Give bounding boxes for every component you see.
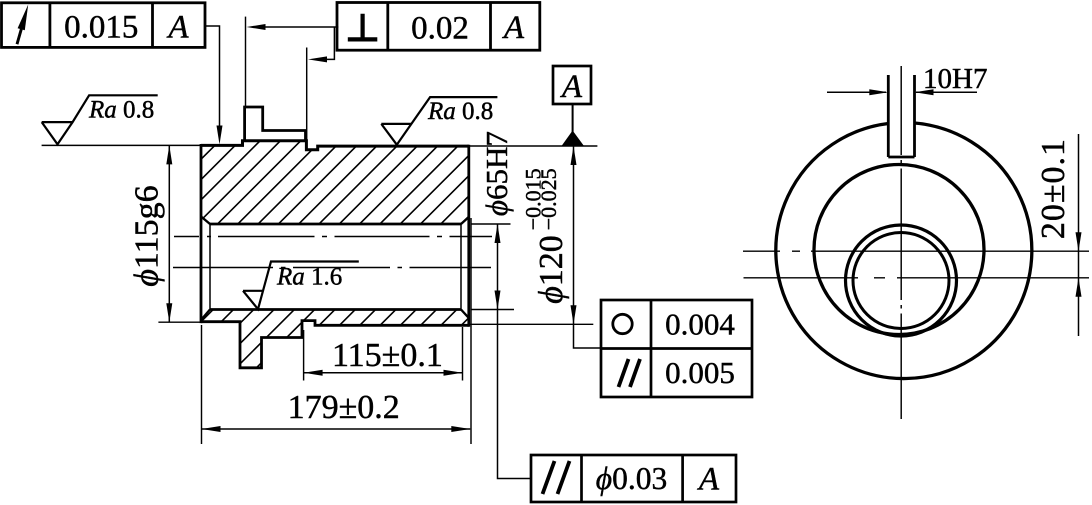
svg-text:0.004: 0.004 bbox=[665, 307, 735, 342]
runout symbol arrow bbox=[17, 19, 24, 44]
value 20±0.1 rotated bbox=[1035, 138, 1072, 239]
datum A flag box bbox=[553, 66, 591, 104]
svg-text:10H7: 10H7 bbox=[923, 63, 987, 95]
surface finish Ra 0.8 right bbox=[381, 97, 497, 145]
svg-text:0.005: 0.005 bbox=[665, 355, 735, 390]
bore chamfer edge lines bbox=[210, 224, 461, 310]
outer circle with keyway gap bbox=[776, 123, 1032, 379]
concentricity circle symbol bbox=[613, 314, 632, 333]
dimension phi120 tolerance (vertical at right of part) bbox=[574, 146, 602, 348]
label phi65H7 rotated bbox=[479, 131, 514, 216]
leader from F1 down to top surface bbox=[205, 26, 220, 128]
svg-text:ϕ115g6: ϕ115g6 bbox=[129, 185, 166, 286]
svg-text:0.015: 0.015 bbox=[64, 10, 138, 46]
dimension 115±0.1 bbox=[303, 330, 305, 381]
bore axis centerline bbox=[173, 267, 491, 269]
dimension 20±0.1 bbox=[1078, 134, 1080, 336]
svg-text:A: A bbox=[502, 10, 525, 46]
bore circle bbox=[853, 233, 949, 329]
extension of bottom surface for phi120 bbox=[469, 323, 594, 325]
hatching bottom band of section view bbox=[0, 110, 758, 390]
extension line at boss left face bbox=[245, 17, 247, 107]
phi120 tolerance stack rotated bbox=[521, 168, 546, 230]
bore top line bbox=[210, 223, 461, 226]
outer horizontal centerline bbox=[743, 250, 1089, 252]
vertical centerline bbox=[900, 66, 902, 419]
middle circle bbox=[814, 165, 984, 335]
label phi115g6 rotated bbox=[129, 185, 166, 286]
perpendicularity symbol bbox=[348, 14, 378, 40]
main body outline: bottom profile with lower boss bbox=[201, 321, 469, 368]
right end face bbox=[467, 145, 470, 327]
dimension 179±0.2 bbox=[201, 325, 203, 444]
svg-text:ϕ120: ϕ120 bbox=[533, 235, 570, 304]
concentricity + parallelism stacked frames bbox=[601, 300, 752, 397]
svg-text:Ra 0.8: Ra 0.8 bbox=[88, 97, 154, 124]
dimension 10H7 bbox=[827, 91, 977, 93]
bore chamfer diagonals bbox=[201, 217, 469, 321]
leader branch to second extension line bbox=[324, 27, 334, 59]
feature control frame F2 (perpendicularity 0.02 A) bbox=[337, 3, 540, 51]
leader from F2 to left extension line bbox=[263, 26, 338, 28]
datum stem and solid triangle bbox=[572, 104, 574, 132]
svg-text:115±0.1: 115±0.1 bbox=[332, 337, 443, 374]
svg-text:A: A bbox=[560, 69, 583, 105]
surface finish Ra 1.6 in bore bbox=[243, 262, 359, 310]
phi120 text rotated bbox=[533, 235, 570, 304]
svg-text:A: A bbox=[166, 10, 189, 46]
dimension phi115g6 (vertical at left) bbox=[42, 144, 201, 146]
svg-text:Ra 1.6: Ra 1.6 bbox=[276, 264, 342, 291]
parallelism symbol bottom frame bbox=[543, 461, 570, 494]
svg-text:ϕ0.03: ϕ0.03 bbox=[596, 461, 667, 496]
outer axis centerline bbox=[174, 236, 492, 238]
svg-text:179±0.2: 179±0.2 bbox=[288, 389, 400, 426]
bore chamfer circle bbox=[846, 225, 957, 336]
hatching top band of section view bbox=[0, 110, 758, 390]
bore horizontal centerline bbox=[744, 277, 1090, 279]
svg-text:20±0.1: 20±0.1 bbox=[1035, 138, 1072, 239]
svg-text:ϕ65H7: ϕ65H7 bbox=[479, 131, 514, 216]
bore bottom line bbox=[210, 308, 461, 311]
dimension phi65H7 with leader to parallelism frame bbox=[471, 223, 511, 225]
surface finish Ra 0.8 left bbox=[42, 95, 158, 144]
main body outline: top profile bbox=[201, 141, 469, 150]
svg-text:0.02: 0.02 bbox=[411, 10, 469, 46]
parallelism symbol in stacked frame bbox=[619, 359, 641, 387]
svg-text:−0.025: −0.025 bbox=[536, 168, 561, 230]
upper boss (unsectioned key) bbox=[245, 107, 306, 141]
keyway slot bbox=[888, 75, 914, 157]
extension of top surface to datum bbox=[469, 145, 598, 147]
feature control frame F1 (circular runout 0.015 A) bbox=[2, 3, 206, 48]
parallelism frame bottom (phi0.03 A) bbox=[531, 455, 736, 502]
left end face bbox=[200, 144, 203, 323]
extension line at boss right face bbox=[306, 48, 308, 149]
svg-text:Ra 0.8: Ra 0.8 bbox=[427, 98, 493, 125]
svg-text:A: A bbox=[697, 462, 720, 498]
